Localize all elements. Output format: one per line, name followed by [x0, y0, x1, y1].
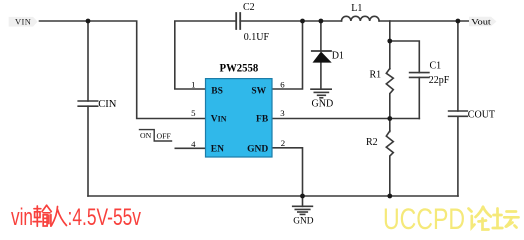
svg-text:R1: R1 [370, 70, 382, 81]
svg-text:GND: GND [293, 217, 314, 227]
svg-text:1: 1 [191, 79, 195, 89]
svg-text:D1: D1 [332, 51, 344, 62]
svg-text:vin: vin [11, 204, 33, 231]
svg-text:VIN: VIN [15, 16, 31, 26]
svg-text:3: 3 [280, 108, 285, 118]
svg-text:2: 2 [281, 138, 285, 148]
svg-text:COUT: COUT [468, 110, 495, 121]
svg-text:GND: GND [312, 99, 334, 110]
svg-text:4: 4 [191, 139, 196, 149]
svg-text:L1: L1 [351, 3, 362, 14]
svg-text:FB: FB [256, 114, 269, 124]
svg-text:PW2558: PW2558 [220, 62, 259, 74]
svg-text:Vout: Vout [471, 16, 491, 26]
svg-text:R2: R2 [366, 137, 378, 148]
svg-text:6: 6 [280, 79, 285, 89]
svg-text:OFF: OFF [157, 132, 172, 141]
svg-text:VIN: VIN [211, 114, 227, 124]
svg-text:ON: ON [140, 131, 152, 140]
svg-text:UCCPD: UCCPD [383, 203, 465, 234]
svg-text:EN: EN [211, 144, 224, 154]
svg-text:SW: SW [251, 87, 266, 97]
svg-text:CIN: CIN [98, 99, 117, 110]
svg-text:C2: C2 [243, 2, 255, 13]
svg-text:GND: GND [247, 144, 268, 154]
svg-text:0.1UF: 0.1UF [244, 32, 270, 43]
svg-text:BS: BS [211, 87, 223, 97]
svg-text:22pF: 22pF [429, 75, 450, 86]
svg-text:5: 5 [191, 108, 196, 118]
svg-text::4.5V-55v: :4.5V-55v [68, 204, 142, 231]
svg-text:C1: C1 [430, 60, 442, 71]
